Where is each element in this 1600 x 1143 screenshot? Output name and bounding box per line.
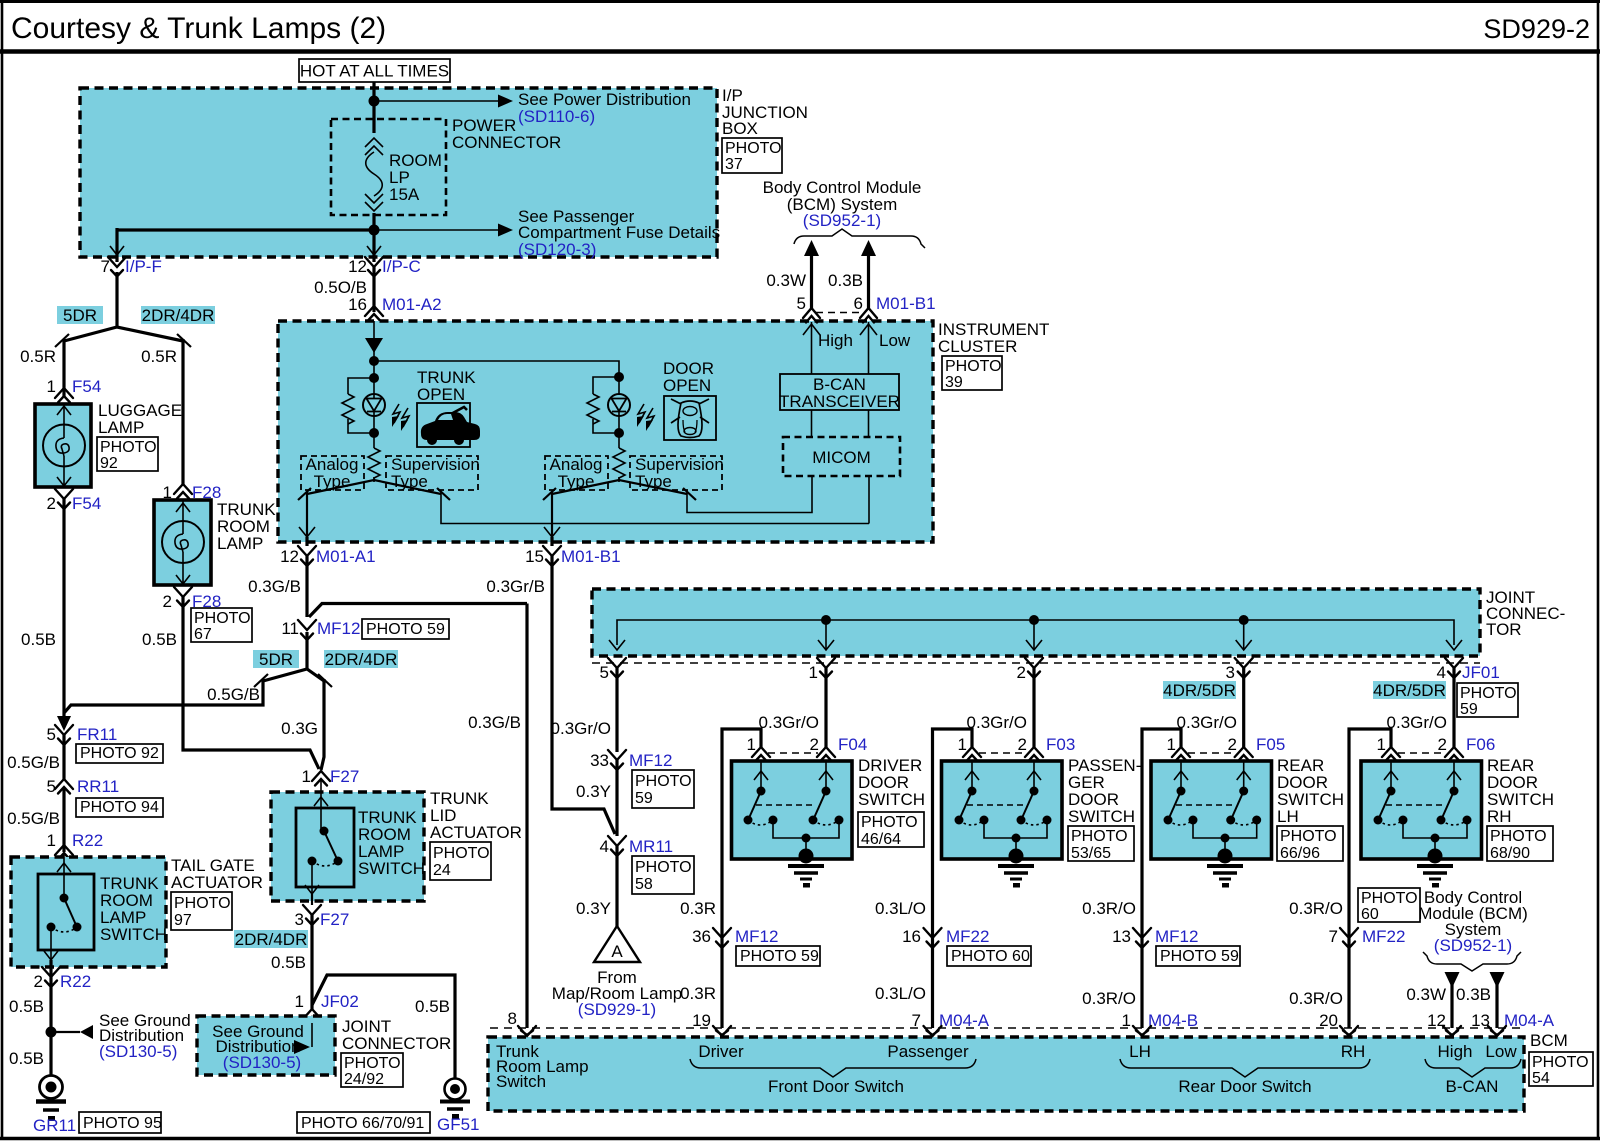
svg-text:High: High [1438, 1042, 1473, 1061]
svg-text:LH: LH [1129, 1042, 1151, 1061]
svg-text:97: 97 [174, 912, 192, 929]
photo ref 92 box FR11 [76, 744, 163, 763]
node dot trunk branch [369, 361, 379, 394]
connector pin 7 MF22 [1329, 927, 1406, 948]
node dot trunk branch bottom [369, 428, 379, 438]
wire 0.3B to BCM [828, 240, 876, 308]
label See Power Distribution [518, 90, 691, 126]
label ROOM LP 15A [389, 151, 442, 204]
label B-CAN [1446, 1077, 1499, 1096]
svg-text:0.5R: 0.5R [20, 347, 56, 366]
light arrows door LED [637, 404, 654, 431]
photo ref 67 box [191, 608, 252, 643]
branch tick analog door [543, 488, 556, 500]
svg-text:F27: F27 [320, 910, 349, 929]
switch symbols rear door switch LH [1164, 761, 1262, 853]
svg-text:M01-A2: M01-A2 [382, 295, 442, 314]
dashed link F04 pins [768, 752, 818, 754]
connector pin 6 M01-B1 [854, 294, 936, 323]
brace BCM system top [794, 229, 925, 248]
svg-text:F05: F05 [1256, 735, 1285, 754]
wire 0.3Y MR11 to triangle A [576, 846, 617, 928]
photo ref 94 box RR11 [76, 798, 163, 817]
svg-text:7: 7 [101, 257, 110, 276]
connector pin 4 MR11 [600, 836, 674, 856]
photo ref 39 box [942, 356, 1002, 391]
svg-text:92: 92 [100, 455, 118, 472]
svg-text:0.3Y: 0.3Y [576, 782, 611, 801]
arrow exit M01-B1 [544, 527, 560, 537]
variant box Analog Type trunk [301, 455, 364, 491]
lamp symbol luggage lamp [43, 404, 85, 487]
instrument cluster box [278, 321, 933, 542]
svg-text:PHOTO: PHOTO [1490, 828, 1547, 845]
svg-text:PHOTO 66/70/91: PHOTO 66/70/91 [301, 1115, 424, 1132]
wire F03-1 feed L-shape [933, 729, 973, 1028]
wire B-CAN to MICOM left [811, 410, 813, 437]
connector pin 36 MF12 [692, 927, 778, 948]
MICOM box [783, 437, 900, 476]
svg-text:Type: Type [558, 472, 595, 491]
photo ref 92 box [97, 437, 158, 472]
svg-text:HOT AT ALL TIMES: HOT AT ALL TIMES [300, 62, 449, 81]
svg-text:ACTUATOR: ACTUATOR [430, 823, 522, 842]
svg-text:5DR: 5DR [259, 650, 293, 669]
svg-text:BCM: BCM [1530, 1031, 1568, 1050]
svg-text:F54: F54 [72, 494, 101, 513]
svg-text:GR11: GR11 [33, 1116, 76, 1135]
svg-text:0.3R: 0.3R [680, 899, 716, 918]
svg-text:0.3G/B: 0.3G/B [468, 713, 521, 732]
svg-text:PHOTO: PHOTO [194, 610, 251, 627]
photo ref 46/64 box [858, 812, 924, 848]
node dot door branch bottom [614, 428, 624, 438]
branch tick analog trunk [298, 488, 311, 500]
svg-text:12: 12 [280, 547, 299, 566]
photo ref 54 box [1529, 1052, 1593, 1087]
label Low bottom [1485, 1042, 1517, 1061]
photo ref 37 box [722, 138, 782, 173]
svg-text:19: 19 [692, 1011, 711, 1030]
svg-text:4: 4 [1437, 663, 1446, 682]
label High bottom [1438, 1042, 1473, 1061]
connector pin 1 F27 [302, 767, 360, 786]
svg-text:(SD952-1): (SD952-1) [1434, 936, 1512, 955]
node junction dot fuse details [369, 225, 380, 236]
node dot joint 2 [1026, 615, 1042, 650]
svg-text:13: 13 [1112, 927, 1131, 946]
wire joint1 to F04-2 0.3Gr/O [759, 668, 826, 747]
svg-text:A: A [611, 942, 623, 961]
wire arrow to See Passenger Compartment [374, 224, 513, 237]
rear door switch RH box [1361, 761, 1482, 859]
photo ref 95 box [79, 1112, 162, 1133]
svg-text:67: 67 [194, 626, 212, 643]
svg-text:CONNECTOR: CONNECTOR [342, 1034, 451, 1053]
svg-text:2DR/4DR: 2DR/4DR [142, 306, 215, 325]
dashed link F06 pins [1398, 752, 1446, 754]
photo ref 66/70/91 box [297, 1112, 430, 1133]
connector pin 2 R22 [34, 967, 92, 991]
svg-text:33: 33 [590, 751, 609, 770]
svg-text:LH: LH [1277, 807, 1299, 826]
power connector dashed box [331, 119, 446, 215]
label Trunk Room Lamp Switch [496, 1042, 589, 1091]
photo ref 24 box [430, 842, 491, 880]
svg-text:PHOTO: PHOTO [100, 439, 157, 456]
svg-text:4: 4 [600, 837, 609, 856]
svg-text:1: 1 [1377, 735, 1386, 754]
connector pin 2 F06 [1438, 735, 1496, 762]
svg-text:0.3B: 0.3B [1456, 985, 1491, 1004]
svg-text:Low: Low [1485, 1042, 1517, 1061]
svg-text:PHOTO: PHOTO [433, 845, 490, 862]
svg-text:1: 1 [1122, 1011, 1131, 1030]
svg-text:MF12: MF12 [1155, 927, 1198, 946]
connector pin 16 MF22 [902, 927, 989, 948]
svg-text:24/92: 24/92 [344, 1071, 384, 1088]
LED trunk indicator [363, 394, 385, 433]
wire label 0.3R/O rearLH upper [1082, 899, 1136, 918]
svg-text:0.5B: 0.5B [9, 1049, 44, 1068]
svg-text:MF12: MF12 [317, 619, 360, 638]
trunk room lamp switch R22 inner box [38, 874, 94, 950]
variant box Supervision Type trunk [386, 455, 480, 491]
svg-text:0.3R/O: 0.3R/O [1289, 899, 1343, 918]
arrow joint exit 4 [1446, 640, 1462, 650]
svg-text:PHOTO: PHOTO [1532, 1054, 1589, 1071]
svg-text:M01-B1: M01-B1 [561, 547, 621, 566]
svg-text:16: 16 [348, 295, 367, 314]
svg-text:20: 20 [1319, 1011, 1338, 1030]
switch symbols passenger door switch [955, 761, 1052, 853]
connector pin 13 MF12 [1112, 927, 1198, 948]
node dot joint 1 [818, 615, 834, 650]
svg-text:0.3R/O: 0.3R/O [1082, 989, 1136, 1008]
svg-text:11: 11 [281, 619, 299, 638]
label INSTRUMENT CLUSTER [938, 320, 1049, 356]
wire split to F54 and F28 [64, 327, 183, 486]
svg-text:LAMP: LAMP [98, 418, 144, 437]
svg-text:2DR/4DR: 2DR/4DR [235, 930, 308, 949]
svg-text:Driver: Driver [698, 1042, 744, 1061]
label REAR DOOR SWITCH RH [1487, 756, 1554, 826]
svg-text:8: 8 [508, 1009, 517, 1028]
label BCM [1530, 1031, 1568, 1050]
node dot trunk circuit top [369, 356, 379, 366]
svg-text:5: 5 [47, 725, 56, 744]
B-CAN transceiver box [779, 374, 900, 411]
svg-text:M04-A: M04-A [1504, 1011, 1555, 1030]
variant label 5DR mid [253, 650, 299, 669]
bottom multi-switch box [488, 1037, 1524, 1111]
dashed connector link pins 5-6 [816, 312, 864, 314]
branch tick supervision trunk [437, 488, 450, 500]
see ground distribution box JF02 [197, 1016, 335, 1075]
connector pin 2 F28 [163, 587, 222, 611]
resistor trunk supervision [368, 433, 380, 480]
label TRUNK ROOM LAMP SWITCH R22 [100, 874, 167, 944]
photo ref 66/96 box [1277, 826, 1343, 862]
label TRUNK ROOM LAMP [217, 500, 276, 553]
connector pin 20 bottom [1340, 1026, 1358, 1036]
variant label 4DR/5DR pin3 [1163, 681, 1236, 700]
svg-text:4DR/5DR: 4DR/5DR [1163, 681, 1236, 700]
wire 0.3W BCM to pin 12 [1406, 972, 1459, 1028]
label LUGGAGE LAMP [98, 401, 182, 437]
brace rear door switch [1120, 1059, 1370, 1077]
wire trunk circuit split [307, 477, 869, 537]
svg-text:BOX: BOX [722, 119, 758, 138]
svg-text:High: High [818, 331, 853, 350]
svg-text:3: 3 [295, 910, 304, 929]
label LH [1129, 1042, 1151, 1061]
label PASSENGER DOOR SWITCH [1068, 756, 1141, 826]
connector pin 2 F03 [1018, 735, 1076, 762]
svg-text:OPEN: OPEN [417, 385, 465, 404]
photo ref 59 box MF12-33 [632, 770, 694, 808]
connector pin 11 MF12 [281, 619, 360, 640]
wire main feed vertical from HOT box [372, 82, 375, 262]
svg-text:Front Door Switch: Front Door Switch [768, 1077, 904, 1096]
ground rear door switch RH [1417, 849, 1453, 888]
label See Ground Distribution R22 [99, 1011, 191, 1061]
svg-text:PHOTO 95: PHOTO 95 [83, 1115, 162, 1132]
connector pin 5 FR11 [47, 725, 118, 745]
svg-text:5: 5 [600, 663, 609, 682]
connector pin 19 bottom [713, 1026, 731, 1036]
variant label 4DR/5DR pin4 [1373, 681, 1446, 700]
wire 0.5G/B FR11 to RR11 [7, 735, 64, 779]
svg-text:(SD110-6): (SD110-6) [518, 107, 595, 126]
label Rear Door Switch [1178, 1077, 1311, 1096]
arrow exit M01-A1 [299, 527, 315, 537]
wire 0.5O/B I/P-C to M01-A2 [314, 267, 374, 312]
svg-text:2: 2 [163, 592, 172, 611]
connector pin 7 I/P-F [101, 257, 162, 277]
svg-text:(SD120-3): (SD120-3) [518, 240, 596, 259]
brace front door switch [690, 1059, 976, 1077]
arrow joint exit 5 [609, 640, 625, 650]
icon trunk open car [417, 403, 480, 447]
connector pin 5 RR11 [47, 777, 120, 796]
photo ref 24/92 box [341, 1053, 403, 1088]
label 0.5G/B branch [207, 685, 260, 704]
wire label 0.5R left [20, 347, 56, 366]
svg-text:CLUSTER: CLUSTER [938, 337, 1017, 356]
svg-text:0.3R/O: 0.3R/O [1289, 989, 1343, 1008]
svg-text:Rear Door Switch: Rear Door Switch [1178, 1077, 1311, 1096]
svg-text:15: 15 [525, 547, 544, 566]
connector pin 13 bottom [1488, 1026, 1506, 1036]
dashed link F05 pins [1188, 752, 1236, 754]
wire label 0.3R driver lower and pin 19 [680, 984, 716, 1030]
dashed link F03 pins [979, 752, 1026, 754]
svg-text:0.3Gr/O: 0.3Gr/O [1387, 713, 1447, 732]
branch tick 5DR mid [254, 674, 268, 687]
svg-text:SWITCH: SWITCH [100, 925, 167, 944]
svg-text:0.3Gr/O: 0.3Gr/O [967, 713, 1027, 732]
svg-text:3: 3 [1226, 663, 1235, 682]
svg-text:F06: F06 [1466, 735, 1495, 754]
svg-text:MF22: MF22 [1362, 927, 1405, 946]
svg-text:13: 13 [1471, 1011, 1490, 1030]
svg-text:1: 1 [809, 663, 818, 682]
label DOOR OPEN [663, 359, 714, 395]
svg-text:PHOTO 60: PHOTO 60 [951, 948, 1030, 965]
label DRIVER DOOR SWITCH [858, 756, 925, 809]
light arrows trunk LED [392, 404, 409, 431]
wire 0.5B F54 to FR11 [21, 499, 64, 726]
svg-text:0.3Gr/O: 0.3Gr/O [1177, 713, 1237, 732]
label REAR DOOR SWITCH LH [1277, 756, 1344, 826]
dashed connector row line under joint connector [592, 662, 1480, 664]
switch symbols rear door switch RH [1374, 761, 1472, 853]
arrow see ground distribution R22 [51, 1025, 93, 1039]
wire 0.5B F27 to JF02 [271, 915, 312, 1009]
wire 0.3W to BCM [766, 240, 819, 308]
svg-text:PHOTO 94: PHOTO 94 [80, 799, 159, 816]
wire arrow to See Power Distribution [374, 95, 513, 108]
diode symbol at cluster entry [365, 321, 383, 361]
wire High with arrow [803, 322, 820, 374]
svg-text:0.3L/O: 0.3L/O [875, 899, 926, 918]
connector pin 2 F05 [1228, 735, 1286, 762]
wire MF12 down to split [305, 632, 308, 669]
page frame right border [1597, 0, 1600, 1140]
wire cluster exit stubs [307, 537, 552, 546]
svg-text:0.3Y: 0.3Y [576, 899, 611, 918]
arrow exit I/P-F [110, 246, 124, 255]
svg-text:Low: Low [879, 331, 911, 350]
svg-text:0.5G/B: 0.5G/B [207, 685, 260, 704]
connector pin 1 F03 [958, 735, 981, 762]
wire I/P-F down to 5DR split [115, 272, 118, 328]
svg-text:53/65: 53/65 [1071, 845, 1111, 862]
connector joint pin 5 [600, 658, 626, 682]
connector pin 1 F04 [747, 735, 770, 762]
svg-text:4DR/5DR: 4DR/5DR [1373, 681, 1446, 700]
variant label 2DR/4DR [141, 306, 215, 325]
connector pin 2 F04 [810, 735, 868, 762]
svg-text:1: 1 [302, 767, 311, 786]
svg-text:0.3G: 0.3G [281, 719, 318, 738]
svg-text:RH: RH [1341, 1042, 1366, 1061]
svg-text:RR11: RR11 [77, 777, 119, 796]
wire 0.5B F28 to F27 [142, 597, 319, 769]
svg-text:Type: Type [391, 472, 428, 491]
wire F05-1 feed L-shape [1142, 729, 1181, 1028]
svg-text:PHOTO: PHOTO [945, 358, 1002, 375]
svg-text:68/90: 68/90 [1490, 845, 1530, 862]
label Body Control Module bottom [1418, 888, 1528, 955]
resistor door indicator [587, 377, 619, 433]
svg-text:F04: F04 [838, 735, 867, 754]
svg-text:PHOTO: PHOTO [1071, 828, 1128, 845]
wire 0.5B R22 to ground [9, 960, 51, 1076]
arrow merge into FR11 [57, 716, 71, 731]
svg-text:PHOTO: PHOTO [1361, 890, 1418, 907]
svg-text:(SD952-1): (SD952-1) [803, 211, 881, 230]
wire Low with arrow [860, 322, 877, 374]
svg-text:JF01: JF01 [1462, 663, 1500, 682]
tail gate actuator box [11, 857, 166, 967]
svg-text:0.3B: 0.3B [828, 271, 863, 290]
label JOINT CONNECTOR JF02 [342, 1017, 451, 1053]
label POWER CONNECTOR [452, 116, 561, 152]
I/P junction box label [722, 86, 808, 138]
trunk room lamp switch F27 inner box [296, 808, 354, 887]
svg-text:59: 59 [1460, 701, 1478, 718]
svg-text:SD929-2: SD929-2 [1483, 14, 1590, 44]
svg-text:0.3L/O: 0.3L/O [875, 984, 926, 1003]
connector pin 12 bottom [1443, 1026, 1461, 1036]
svg-text:2: 2 [1017, 663, 1026, 682]
brace B-CAN [1425, 1059, 1521, 1077]
wire label 0.3L/O passenger upper [875, 899, 926, 918]
svg-text:B-CAN: B-CAN [1446, 1077, 1499, 1096]
dashed connector row line bottom box [490, 1027, 1522, 1029]
switch symbol R22 [44, 855, 82, 960]
wire 0.3G/B M01-A1 to MF12 [248, 556, 307, 617]
svg-text:0.3G/B: 0.3G/B [248, 577, 301, 596]
label From Map/Room Lamp [552, 968, 682, 1019]
trunk lid actuator box [271, 792, 424, 901]
svg-text:JF02: JF02 [321, 992, 359, 1011]
svg-text:0.3W: 0.3W [766, 271, 806, 290]
variant box Supervision Type door [630, 455, 724, 491]
svg-text:SWITCH: SWITCH [858, 790, 925, 809]
svg-text:MICOM: MICOM [812, 448, 871, 467]
connector pin 1 F05 [1167, 735, 1190, 762]
svg-text:PHOTO 59: PHOTO 59 [366, 621, 445, 638]
svg-text:0.5B: 0.5B [21, 630, 56, 649]
svg-text:1: 1 [295, 992, 304, 1011]
I/P junction box [80, 88, 717, 257]
passenger door switch box [942, 761, 1063, 859]
wire label 0.3L/O passenger lower and pin 7 M04-A [875, 984, 990, 1030]
svg-text:6: 6 [854, 294, 863, 313]
wire 0.3Gr/B M01-B1 to MR11 [486, 556, 615, 834]
svg-text:16: 16 [902, 927, 921, 946]
svg-text:GF51: GF51 [437, 1115, 480, 1134]
node triangle A from map/room lamp [594, 926, 640, 962]
svg-text:15A: 15A [389, 185, 420, 204]
ground driver door switch [788, 849, 824, 888]
svg-text:PHOTO: PHOTO [1460, 685, 1517, 702]
connector pin 16 M01-A2 [348, 295, 441, 321]
connector pin 33 MF12 [590, 750, 672, 770]
connector joint pin 2 [1017, 658, 1043, 682]
svg-text:F03: F03 [1046, 735, 1075, 754]
svg-text:MF12: MF12 [629, 751, 672, 770]
label TRUNK OPEN [417, 368, 476, 404]
photo ref 59 box JF01 [1457, 683, 1518, 718]
resistor trunk indicator [342, 378, 374, 433]
svg-text:0.5B: 0.5B [415, 997, 450, 1016]
wire F27-3 stub [311, 894, 313, 905]
label 0.3G [281, 719, 318, 738]
wire label 0.3R driver upper [680, 899, 716, 918]
svg-text:PHOTO: PHOTO [725, 140, 782, 157]
svg-text:2: 2 [34, 972, 43, 991]
title separator line [0, 49, 1600, 54]
svg-text:M01-A1: M01-A1 [316, 547, 376, 566]
connector pin 1 bottom [1133, 1026, 1151, 1036]
svg-text:PHOTO: PHOTO [635, 859, 692, 876]
svg-text:Switch: Switch [496, 1072, 546, 1091]
svg-text:0.3Gr/B: 0.3Gr/B [486, 577, 545, 596]
